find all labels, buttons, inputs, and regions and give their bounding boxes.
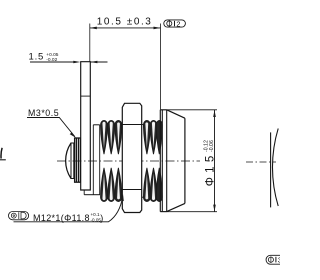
lens ring (71, 143, 74, 179)
cap bottom edge (160, 211, 166, 213)
phi15 arrow bottom (213, 205, 216, 212)
left edge centerline tick (0, 159, 6, 161)
front bezel ring (dark) (75, 138, 81, 182)
svg-text:M3*0.5: M3*0.5 (28, 108, 59, 118)
phi15 dimension line (214, 110, 216, 212)
dimension 10.5 arrow left (90, 27, 97, 30)
dimension 10.5 arrow right (154, 27, 161, 30)
plate bottom step (81, 190, 84, 195)
label M12 leader (14, 197, 123, 222)
dimension 10.5 line (90, 27, 161, 29)
label M3*0.5 (28, 108, 59, 118)
thread section 1 top lobes (101, 121, 122, 155)
shank rect top (93, 124, 99, 126)
centerline main view (57, 160, 200, 162)
cap front face (159, 110, 161, 212)
label M12 arrowhead (121, 194, 124, 201)
dimension 1.5 arrow left (73, 61, 80, 64)
phi15 extension bottom (160, 211, 217, 213)
right edge partial view face line (270, 132, 272, 207)
left edge partial view arc (1, 148, 2, 159)
extension line right (cap face) (160, 24, 162, 110)
dimension 10.5 +-0.3 text (97, 17, 153, 28)
svg-text:Φ15: Φ15 (204, 151, 216, 186)
dimension 1.5 arrow right (90, 61, 97, 64)
balloon callout bottom right (clipped) (266, 255, 282, 264)
label M12*1(phi11.8) (33, 212, 103, 223)
svg-text:M12*1(Φ11.8: M12*1(Φ11.8 (33, 213, 90, 223)
dimension 1.5 leader line (30, 61, 74, 63)
thread section 2 bottom lobes (143, 168, 162, 202)
shank left face (92, 125, 94, 195)
svg-text:): ) (100, 213, 103, 223)
cap top chamfer (167, 110, 185, 118)
cap top edge (160, 109, 166, 111)
panel / front plate (81, 62, 91, 190)
right edge centerline (246, 161, 276, 163)
shank right face (99, 125, 101, 195)
dimension 1.5 text (29, 52, 59, 63)
thread section 1 bottom lobes (101, 168, 122, 202)
phi15 text (204, 140, 217, 186)
cap bottom chamfer (167, 203, 185, 211)
phi15 arrow top (213, 110, 216, 117)
shank shelf bottom (84, 194, 100, 196)
label M3*0.5 arrowhead (70, 132, 76, 137)
svg-text:2: 2 (176, 19, 180, 28)
right edge partial view arc (272, 129, 278, 207)
svg-text:+0.1: +0.1 (91, 212, 101, 217)
extension line left (panel face) (89, 24, 91, 62)
cap right edge (184, 118, 186, 203)
hex nut (122, 103, 141, 212)
balloon callout bottom left (9, 212, 29, 220)
balloon callout Φ12 top right (164, 19, 186, 28)
svg-text:1.5: 1.5 (29, 52, 45, 63)
cap inner vertical (166, 110, 168, 212)
dome lens arc (66, 143, 71, 179)
svg-text:3: 3 (278, 256, 280, 265)
svg-text:10.5 ±0.3: 10.5 ±0.3 (97, 17, 153, 28)
shank stub top right of nut (142, 124, 145, 126)
svg-text:-0.06: -0.06 (209, 140, 215, 152)
thread section 2 top lobes (143, 120, 162, 154)
phi15 extension top (161, 109, 217, 111)
label M3*0.5 leader (27, 118, 75, 137)
